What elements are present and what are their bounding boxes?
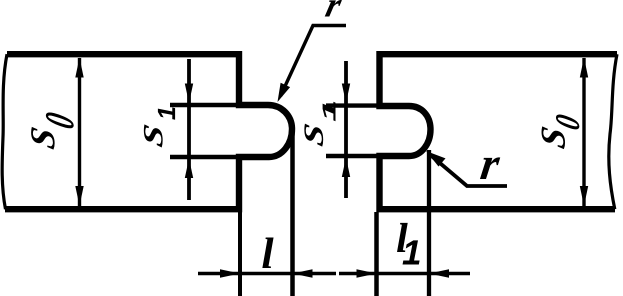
left plate break line (wavy left edge) (2, 54, 7, 209)
dimension l1: extension line from plate edge (374, 212, 379, 296)
dimension l: extension line from plate edge (238, 212, 242, 296)
dimension S0 right: label (542, 113, 580, 149)
dimension l1: label (397, 223, 420, 265)
dimension S1 left: label (144, 108, 175, 148)
left plate outline (tongue / male part) (5, 54, 292, 209)
radius leader r right: leader line and arrow (426, 151, 507, 186)
dimension l: label (262, 237, 273, 268)
right plate break line (wavy right edge) (609, 54, 617, 209)
dimension l1: extension line from groove tip (427, 150, 431, 296)
dimension l: dimension line with arrows (198, 269, 336, 277)
dimension S1 right: dimension line with arrows (342, 61, 350, 198)
radius label r left (325, 0, 342, 16)
dimension S1 left: dimension line with arrows (185, 59, 193, 200)
radius leader r left: leader line and arrow (278, 26, 347, 103)
right plate outline (groove / female part) (380, 54, 618, 209)
dimension l1: dimension line with arrows (339, 269, 470, 277)
dimension S1 right: label (304, 102, 335, 147)
dimension S1 left: extension lines (170, 105, 238, 157)
dimension S0 right: dimension line (580, 58, 588, 207)
dimension S1 right: extension lines (326, 106, 378, 156)
radius label r right (480, 157, 500, 179)
dimension S0 left: dimension line (75, 58, 83, 207)
dimension S0 left: label (31, 111, 74, 150)
dimension l: extension line from tongue tip (290, 132, 295, 296)
